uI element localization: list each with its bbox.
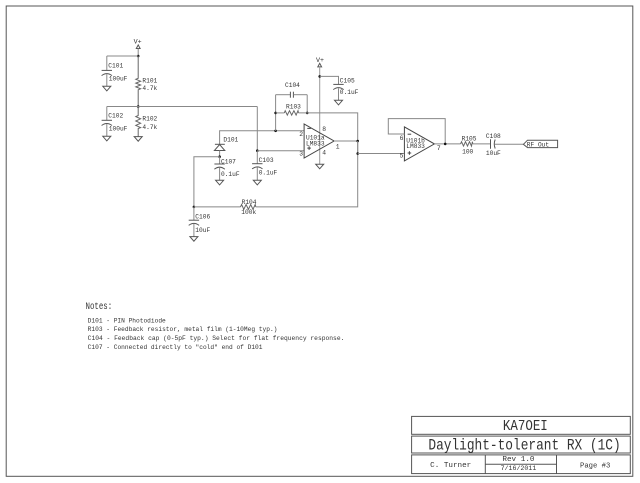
wire to C105 xyxy=(320,76,339,84)
svg-text:C107: C107 xyxy=(221,159,236,166)
svg-text:0.1uF: 0.1uF xyxy=(340,89,359,96)
ground (R102) xyxy=(134,137,142,142)
wire junction left and down to C106 node xyxy=(194,157,220,207)
photodiode D101 xyxy=(214,144,224,150)
svg-text:R105: R105 xyxy=(462,136,477,143)
resistor R104 xyxy=(194,206,241,208)
capacitor C105 xyxy=(333,84,343,89)
wire output down to pin5 xyxy=(357,141,359,154)
svg-text:6: 6 xyxy=(400,135,404,142)
svg-text:100uF: 100uF xyxy=(109,75,128,82)
node V+/C105 xyxy=(318,75,321,78)
resistor R103 xyxy=(276,112,285,114)
wire feedback to output node xyxy=(299,113,358,141)
svg-text:C102: C102 xyxy=(108,112,123,119)
svg-text:3: 3 xyxy=(299,151,303,158)
svg-text:C106: C106 xyxy=(195,214,210,221)
svg-text:5: 5 xyxy=(400,153,404,160)
capacitor C103 xyxy=(256,151,258,164)
RF Out flag xyxy=(523,140,557,147)
svg-text:Notes:: Notes: xyxy=(86,302,113,313)
op-amp U101a xyxy=(304,124,334,158)
U101b plus input mark xyxy=(408,151,412,155)
wire U101a output xyxy=(334,140,358,142)
ground (C105) xyxy=(335,100,343,105)
svg-text:C107 - Connected directly to ": C107 - Connected directly to "cold" end … xyxy=(88,344,263,351)
node divider xyxy=(137,105,140,108)
svg-text:Page #3: Page #3 xyxy=(580,462,610,470)
node R103/C104 left xyxy=(274,112,277,115)
node pin2 feedback tap xyxy=(274,130,277,133)
svg-text:100uF: 100uF xyxy=(109,125,128,132)
wire C102 to ground xyxy=(106,124,108,136)
resistor R101 xyxy=(136,56,141,107)
ground (C103) xyxy=(253,180,261,185)
svg-text:0.1uF: 0.1uF xyxy=(221,171,240,178)
svg-text:4.7k: 4.7k xyxy=(142,124,157,131)
svg-text:8: 8 xyxy=(322,126,326,133)
node output U101a xyxy=(356,140,359,143)
wire pin5 xyxy=(358,153,405,155)
op-amp U101b xyxy=(404,127,434,161)
U101a minus input mark xyxy=(307,127,311,129)
wire C107 to ground xyxy=(219,168,221,181)
capacitor C104 xyxy=(276,94,291,96)
svg-text:D101: D101 xyxy=(223,137,238,144)
node pin5 tap xyxy=(356,152,359,155)
svg-text:D101 - PIN Photodiode: D101 - PIN Photodiode xyxy=(88,317,166,324)
svg-text:4.7k: 4.7k xyxy=(142,85,157,92)
capacitor C106 xyxy=(193,207,195,220)
svg-text:R102: R102 xyxy=(142,116,157,123)
wire C105 to ground xyxy=(338,88,340,100)
svg-text:C105: C105 xyxy=(340,78,355,85)
wire U101b feedback loop xyxy=(388,119,445,144)
node U101b output/feedback xyxy=(444,143,447,146)
capacitor C101 xyxy=(102,70,112,75)
wire feedback left leg xyxy=(275,95,277,131)
title block row 3 xyxy=(412,455,631,474)
svg-text:Daylight-tolerant RX (1C): Daylight-tolerant RX (1C) xyxy=(428,436,620,454)
wire C106 to ground xyxy=(193,224,195,237)
ground (C102) xyxy=(103,136,111,141)
svg-text:C104 - Feedback cap (0-5pF typ: C104 - Feedback cap (0-5pF typ.) Select … xyxy=(88,335,345,342)
wire U101b output xyxy=(434,143,460,145)
capacitor C102 xyxy=(102,120,112,125)
U101b minus input mark xyxy=(408,133,412,135)
svg-text:V+: V+ xyxy=(134,39,142,46)
title block row 1 xyxy=(412,416,631,434)
svg-text:7/16/2011: 7/16/2011 xyxy=(501,465,537,472)
node pin3 / C103 xyxy=(256,149,259,152)
wire V+ down to node xyxy=(137,49,139,57)
svg-text:2: 2 xyxy=(299,131,303,138)
svg-text:V+: V+ xyxy=(316,57,324,64)
svg-text:C104: C104 xyxy=(285,82,300,89)
svg-text:1: 1 xyxy=(336,143,340,150)
svg-text:10uF: 10uF xyxy=(195,227,210,234)
wire node to C102 branch xyxy=(107,106,138,108)
wire V+ rail down through op-amp to ground xyxy=(319,67,321,164)
svg-text:R101: R101 xyxy=(142,78,157,85)
wire C101 to ground xyxy=(106,74,108,86)
resistor R105 xyxy=(461,142,473,146)
node R103/C104 right xyxy=(306,112,309,115)
title block row 3 dividers xyxy=(484,455,486,474)
wire D101 top to inverting input xyxy=(220,131,305,145)
node D101/C107 xyxy=(218,155,221,158)
wire node to C101 branch xyxy=(107,55,138,57)
wire divider node to C103/pin3 xyxy=(138,106,257,108)
svg-text:C. Turner: C. Turner xyxy=(430,462,471,470)
svg-text:C108: C108 xyxy=(486,133,501,140)
wire C108 to RF Out flag xyxy=(495,143,524,145)
svg-text:RF Out: RF Out xyxy=(527,142,550,149)
ground (C107) xyxy=(216,180,224,185)
svg-text:LM833: LM833 xyxy=(406,143,425,150)
ground (C106) xyxy=(190,237,198,242)
svg-text:Rev 1.0: Rev 1.0 xyxy=(502,456,534,464)
V+ power symbol (left) xyxy=(134,39,142,49)
svg-text:R103: R103 xyxy=(286,104,301,111)
svg-text:KA7OEI: KA7OEI xyxy=(503,418,548,435)
svg-text:100k: 100k xyxy=(241,209,256,216)
V+ power symbol (op-amp) xyxy=(316,57,324,67)
svg-text:7: 7 xyxy=(437,145,441,152)
U101a plus input mark xyxy=(307,146,311,150)
svg-text:100: 100 xyxy=(462,149,473,156)
wire pin3 xyxy=(257,150,304,152)
ground (U101a pin 4) xyxy=(316,164,324,169)
wire D101 anode to junction xyxy=(219,151,221,157)
svg-text:0.1uF: 0.1uF xyxy=(259,169,278,176)
svg-text:R104: R104 xyxy=(242,199,257,206)
svg-text:R103 - Feedback resistor, meta: R103 - Feedback resistor, metal film (1-… xyxy=(88,326,278,333)
title block row 2 xyxy=(412,436,631,453)
svg-text:C103: C103 xyxy=(259,157,274,164)
svg-text:4: 4 xyxy=(322,149,326,156)
resistor R102 xyxy=(136,107,141,137)
wire R105 to C108 xyxy=(473,143,491,145)
capacitor C108 xyxy=(491,139,496,148)
ground (C101) xyxy=(103,86,111,91)
node C106/R104 xyxy=(193,206,196,209)
wire C103 to ground xyxy=(256,168,258,181)
node at V+ rail xyxy=(137,55,140,58)
capacitor C107 xyxy=(219,157,221,164)
svg-text:C101: C101 xyxy=(108,62,123,69)
svg-text:10uF: 10uF xyxy=(486,150,501,157)
wire R104 to output node xyxy=(256,141,358,207)
